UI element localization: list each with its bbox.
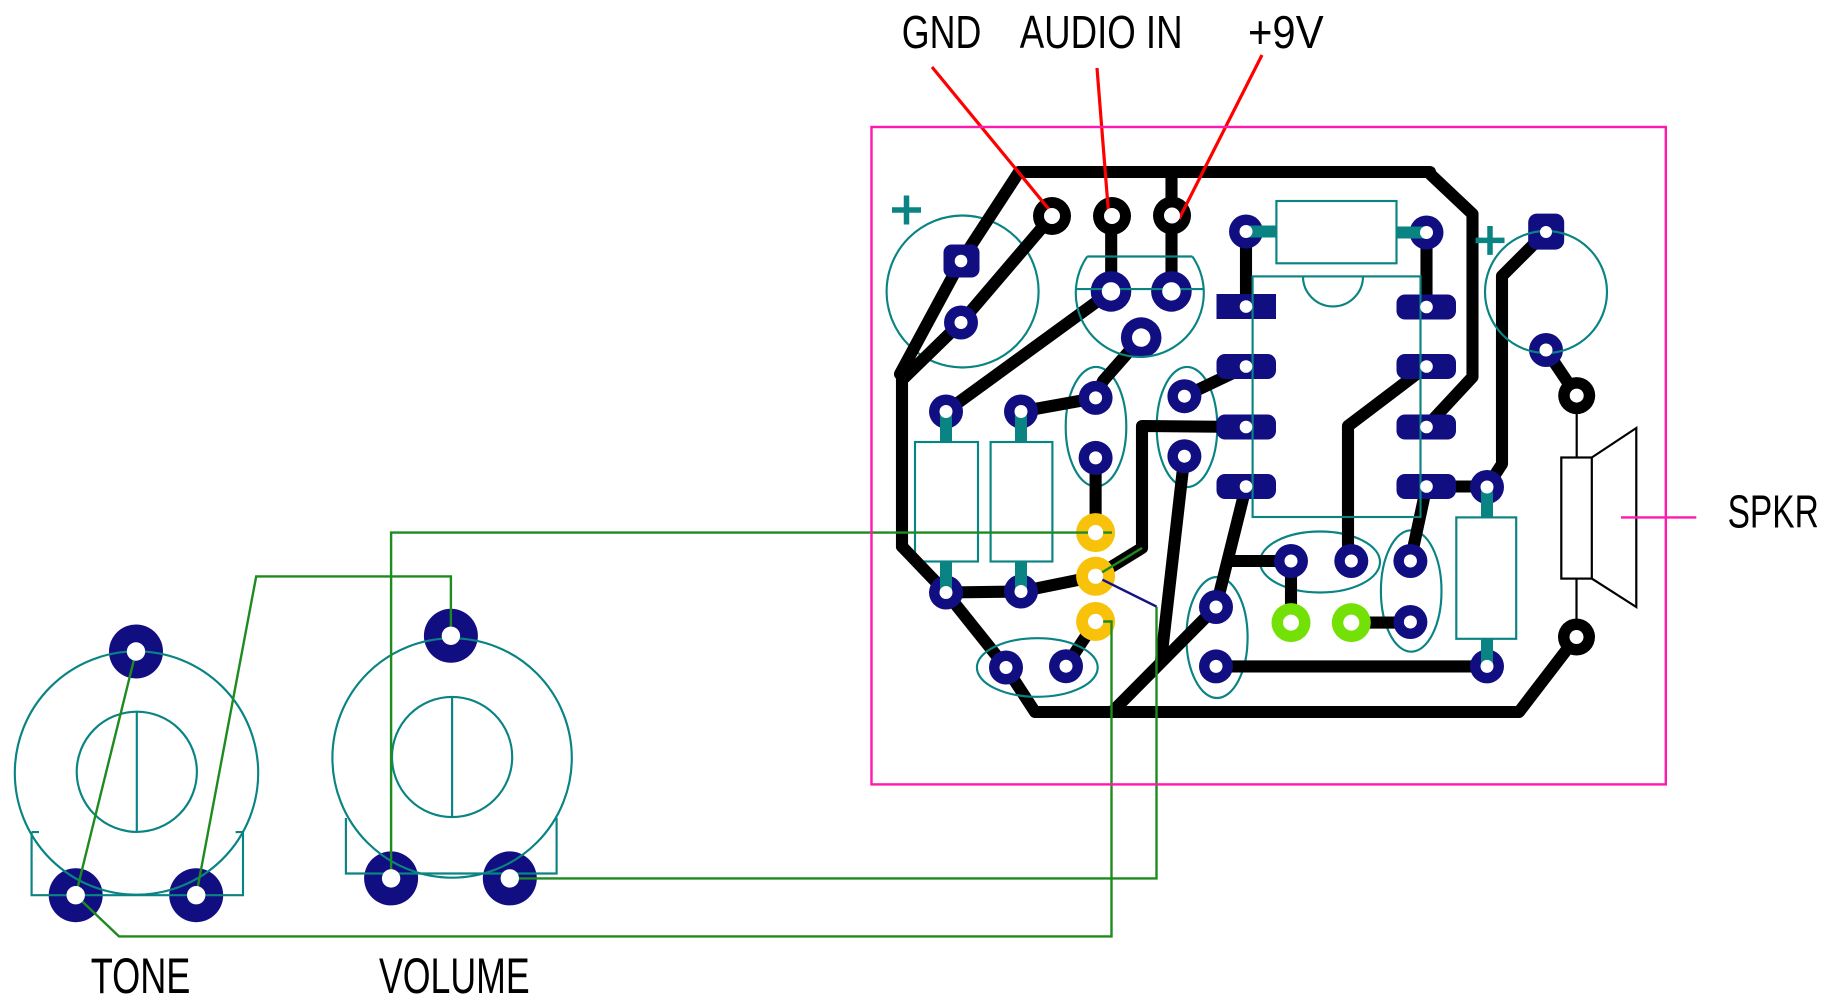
pad: IC U1 pin 7 (1397, 354, 1457, 379)
wire: C4 bottom to R4 bottom (1216, 660, 1487, 672)
wire: top-left diagonal through square pad to left edge (900, 172, 1019, 374)
wire: ground diagonal to C4 top (1112, 607, 1216, 712)
pad: C4 top (1199, 590, 1233, 624)
TONE pot bracket (32, 832, 243, 895)
via: green 1 (1272, 603, 1311, 642)
wire: C7 left down to green pad (1285, 561, 1297, 623)
pad: C2 bottom (1079, 441, 1113, 475)
wire: IC pin 5 to C5 top (1410, 487, 1426, 562)
pad: C7 left (1274, 544, 1308, 578)
VOLUME pot bracket (346, 818, 557, 874)
svg-text:TONE: TONE (91, 948, 191, 1004)
pad: Q1 middle (1121, 317, 1162, 358)
leader: AUDIO IN (1097, 68, 1109, 219)
leader: +9V (1179, 55, 1262, 219)
pad: C3 top (1167, 379, 1201, 413)
resistor R1 body (915, 442, 978, 562)
wire: R1 bottom to R2 bottom to orange via 2 (946, 576, 1096, 592)
wire: left border vertical (896, 374, 908, 547)
wire: tone internal jumper (76, 652, 136, 896)
pad: AUDIO IN terminal (1093, 197, 1131, 235)
pad: IC U1 pin 4 (1217, 474, 1277, 499)
wire: C2 bottom to orange via 1 (1090, 458, 1102, 533)
pad: C6 right (1049, 649, 1083, 683)
wire: green link orange 2 stub (1096, 548, 1142, 576)
resistor R4 leads (1481, 487, 1493, 666)
pad: IC U1 pin 6 (1397, 415, 1457, 440)
svg-text:SPKR: SPKR (1728, 486, 1819, 538)
pad: R3 left (1229, 215, 1263, 249)
pad: C8 plus square (1528, 214, 1564, 250)
capacitor C6 outline (977, 638, 1098, 697)
wire: C7 left horizontal to junction (1230, 555, 1291, 567)
IC U1 body (1253, 276, 1421, 517)
transistor Q1 outline (1076, 257, 1204, 357)
pad: C1 minus (944, 306, 978, 340)
pad: IC U1 pin 1 (1217, 294, 1277, 319)
pad: VOLUME pot terminal 2 (bottom left) (364, 851, 418, 905)
wire: green pad right to C5 bottom (1351, 617, 1410, 629)
pad: IC U1 pin 5 (1397, 474, 1457, 499)
svg-text:+9V: +9V (1248, 6, 1324, 58)
pad: C6 left (989, 651, 1023, 685)
wire: IC pin 4 to C4 top (1216, 487, 1246, 608)
pad: C7 right (1334, 544, 1368, 578)
pad: C2 top (1079, 381, 1113, 415)
wire: tone bottom-left to orange via 3 (76, 622, 1112, 937)
wire: orange via 2 up to IC pin 3 (1096, 426, 1246, 576)
pad: IC U1 pin 2 (1217, 354, 1277, 379)
pad: IC U1 pin 8 (1397, 295, 1457, 320)
via: green 2 (1332, 603, 1371, 642)
pad: speaker terminal 1 (1558, 377, 1595, 414)
pad: VOLUME pot terminal 3 (bottom right) (483, 851, 537, 905)
wire: R2 top to C2 top (1021, 398, 1096, 412)
pad: VOLUME pot terminal 1 (top) (424, 609, 478, 663)
capacitor C2 outline (1066, 367, 1127, 487)
wire: volume left to orange via 1 (391, 533, 1112, 879)
pad: R2 top (1004, 395, 1038, 429)
wire: C8 minus to speaker pad (1546, 350, 1577, 396)
wire: volume right to riser x1156 (510, 607, 1157, 879)
pad: R2 bottom (1004, 575, 1038, 609)
wire: Q1 middle to C2 top (1096, 338, 1142, 398)
capacitor C1 plus mark (892, 196, 921, 225)
wire: bottom ground path (902, 547, 1577, 713)
capacitor C5 outline (1381, 530, 1442, 651)
svg-text:GND: GND (902, 6, 982, 58)
wire: R3 right to IC pin 8 (1420, 233, 1432, 308)
pad: R1 top (929, 395, 963, 429)
pad: R4 bottom (1470, 649, 1504, 683)
pad: C5 top (1393, 544, 1427, 578)
pad: +9V terminal (1153, 197, 1191, 235)
leader: GND (932, 67, 1052, 213)
resistor R1 leads (940, 412, 952, 593)
board outline (872, 127, 1666, 784)
wire: navy link riser to orange via 2 (1096, 576, 1157, 606)
capacitor C7 outline (1260, 532, 1380, 593)
speaker SPKR symbol (1561, 458, 1592, 579)
svg-text:VOLUME: VOLUME (379, 948, 530, 1004)
pad: R3 right (1410, 216, 1444, 250)
pad: IC U1 pin 3 (1217, 415, 1277, 440)
pad: TONE pot terminal 1 (top) (109, 625, 163, 679)
pad: Q1 right (1151, 271, 1192, 312)
capacitor C3 outline (1157, 367, 1218, 487)
wire: C3 top to IC pin 2 (1184, 367, 1246, 396)
wire: square pad C8 to R4 top (1487, 232, 1546, 487)
wire: tone bottom-right to volume top (196, 576, 451, 895)
pad: C1 plus square (944, 245, 980, 278)
pad: TONE pot terminal 2 (bottom left) (49, 868, 103, 922)
wire: +9V vertical (1165, 172, 1177, 291)
wire: R3 left to IC pin 1 (1240, 232, 1252, 307)
resistor R3 body (1276, 201, 1396, 263)
pad: C3 bottom (1167, 439, 1201, 473)
wire: GND pad diagonal through round pad (903, 216, 1052, 379)
capacitor C8 outline (output cap) (1485, 231, 1607, 353)
IC U1 notch (1303, 276, 1363, 306)
pad: TONE pot terminal 3 (bottom right) (169, 868, 223, 922)
capacitor C1 outline (887, 216, 1039, 368)
via: orange 2 (1076, 557, 1115, 596)
resistor R4 body (1456, 517, 1516, 638)
capacitor C8 plus mark (1476, 226, 1505, 255)
wire: IC pin 5 to R4 top (1427, 480, 1488, 492)
wire: speaker lead bottom (1575, 579, 1577, 637)
wire: R1 top to Q1 left (946, 291, 1111, 411)
wire: AUDIO IN vertical (1105, 216, 1117, 291)
pad: C5 bottom (1393, 605, 1427, 639)
pad: R1 bottom (929, 576, 963, 610)
pad: C8 minus (1529, 333, 1563, 367)
resistor R2 body (991, 442, 1053, 562)
pad: C4 bottom (1199, 649, 1233, 683)
wire: IC pin 7 to C7 right (1348, 367, 1427, 562)
TONE pot outline (15, 651, 258, 894)
wire: speaker lead top (1576, 398, 1578, 458)
pad: GND terminal (1033, 197, 1071, 235)
resistor R3 leads (1246, 232, 1427, 233)
pad: speaker terminal 2 (1558, 619, 1595, 656)
leader: SPKR (1621, 516, 1696, 518)
VOLUME pot outline (332, 638, 571, 877)
wire: right top corner to IC pin (1427, 172, 1473, 426)
via: orange 1 (1076, 513, 1115, 552)
wire: orange via 3 to C6 right (1066, 622, 1096, 667)
capacitor C4 outline (1186, 577, 1247, 698)
wire: C3 bottom down to ground diagonal (1161, 456, 1184, 661)
via: orange 3 (1076, 602, 1115, 641)
svg-text:AUDIO IN: AUDIO IN (1020, 6, 1183, 58)
wire: top ground bus (1019, 166, 1430, 178)
resistor R2 leads (1015, 412, 1027, 593)
pad: R4 top (1470, 470, 1504, 504)
pad: Q1 left (1091, 271, 1132, 312)
